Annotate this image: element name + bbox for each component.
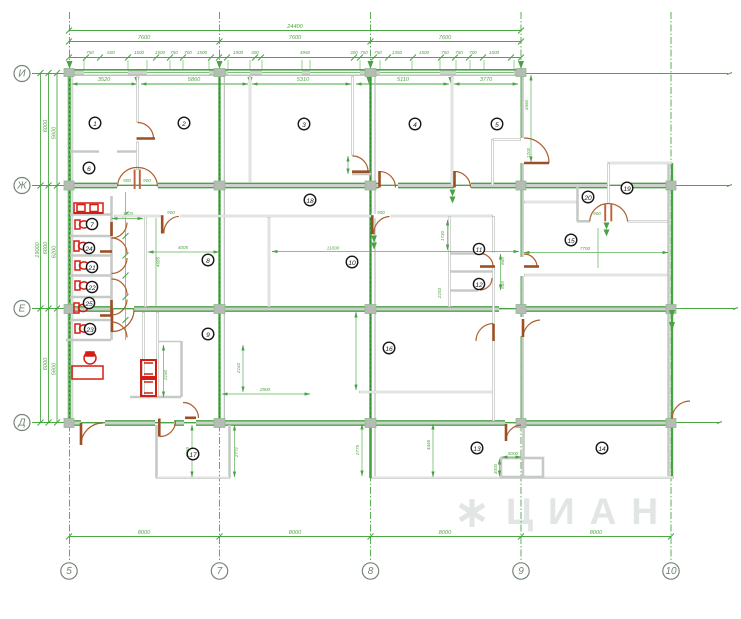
wall room8 left xyxy=(144,216,147,307)
double door rooms 19/20 xyxy=(590,203,628,236)
room5 alcove walls xyxy=(493,139,522,186)
svg-text:Е: Е xyxy=(19,304,26,315)
svg-text:17: 17 xyxy=(189,452,197,459)
svg-text:5110: 5110 xyxy=(397,77,410,83)
room circle 5 xyxy=(491,118,503,130)
top dimension line small row xyxy=(66,50,524,61)
svg-text:7: 7 xyxy=(217,566,223,577)
svg-text:3000: 3000 xyxy=(493,463,498,474)
svg-text:10: 10 xyxy=(665,566,677,577)
red toilet room22 xyxy=(75,281,89,290)
svg-text:21: 21 xyxy=(87,265,96,272)
svg-text:5000: 5000 xyxy=(508,451,519,456)
grid vertical line 5 xyxy=(69,12,71,562)
room circle 1 xyxy=(89,117,101,129)
svg-text:7600: 7600 xyxy=(289,35,302,41)
svg-text:2160: 2160 xyxy=(163,369,168,381)
dim 865 pair xyxy=(500,254,505,290)
svg-text:3770: 3770 xyxy=(480,77,493,83)
wall room4|5 xyxy=(451,76,454,186)
svg-text:8000: 8000 xyxy=(590,530,603,536)
svg-text:7600: 7600 xyxy=(138,35,151,41)
top dimension line 24400 xyxy=(66,24,524,34)
svg-text:900: 900 xyxy=(167,210,175,215)
wall x493 rooms 11/12 right xyxy=(491,216,496,421)
svg-text:700: 700 xyxy=(469,50,477,55)
axis circle Е xyxy=(14,301,30,317)
wall room2|3 xyxy=(249,76,252,183)
wall room6 top xyxy=(70,150,137,153)
svg-text:1500: 1500 xyxy=(419,50,430,55)
room circle 20 xyxy=(582,191,594,203)
svg-text:750: 750 xyxy=(374,50,382,55)
svg-text:1500: 1500 xyxy=(155,50,166,55)
red toilet room7 xyxy=(75,220,89,229)
door room17 top xyxy=(159,419,175,437)
svg-text:9: 9 xyxy=(206,332,210,339)
svg-text:ЦИАН: ЦИАН xyxy=(506,491,673,532)
axis circle 10 xyxy=(663,563,679,579)
svg-text:5: 5 xyxy=(495,122,499,129)
red elevator boxes xyxy=(141,360,156,396)
svg-text:1900: 1900 xyxy=(233,50,244,55)
room circle 18 xyxy=(304,194,316,206)
room circle 3 xyxy=(298,118,310,130)
svg-text:4685: 4685 xyxy=(156,256,161,267)
svg-text:750: 750 xyxy=(455,50,463,55)
svg-text:3660: 3660 xyxy=(524,99,529,110)
axis circle 9 xyxy=(513,563,529,579)
svg-text:Ж: Ж xyxy=(16,181,27,192)
elevator shaft walls xyxy=(130,312,182,397)
column blocks xyxy=(64,69,676,428)
room circle 8 xyxy=(202,254,214,266)
wall x269 room8 right xyxy=(268,217,271,307)
svg-text:1500: 1500 xyxy=(134,50,145,55)
red sink round lower xyxy=(84,352,96,364)
svg-text:600: 600 xyxy=(107,50,115,55)
toilet block dividers xyxy=(70,215,111,321)
door room8 top xyxy=(162,210,179,234)
door grid9 wall y317 xyxy=(523,319,540,337)
room 16 bottom wall xyxy=(359,391,493,394)
wall grid 7 interior xyxy=(218,74,220,423)
room circle 17 xyxy=(187,448,199,460)
room circle 4 xyxy=(409,118,421,130)
svg-text:5600: 5600 xyxy=(52,126,58,139)
room 17 walls xyxy=(156,425,230,478)
svg-text:Д: Д xyxy=(17,418,25,429)
svg-text:8000: 8000 xyxy=(289,530,302,536)
svg-text:5310: 5310 xyxy=(297,77,310,83)
svg-text:700: 700 xyxy=(184,50,192,55)
axis circle И xyxy=(14,66,30,82)
wall y272 corridor xyxy=(524,274,668,277)
axis line Ж xyxy=(32,185,730,187)
svg-text:2771: 2771 xyxy=(234,446,239,458)
room circle 9 xyxy=(202,328,214,340)
bottom strip walls (rooms 13,14) xyxy=(371,423,675,478)
svg-text:8: 8 xyxy=(368,566,374,577)
svg-text:4: 4 xyxy=(413,122,417,129)
outer wall И top xyxy=(66,70,525,76)
closet box rooms13/14 xyxy=(501,458,543,477)
svg-text:11000: 11000 xyxy=(327,246,340,251)
toilet block bottom wall xyxy=(66,339,111,342)
room circle 7 xyxy=(86,218,97,229)
door room10 top xyxy=(372,210,389,234)
svg-text:2775: 2775 xyxy=(355,444,360,456)
top-right step wall xyxy=(608,163,673,204)
red toilet room24 xyxy=(74,241,88,251)
grid vertical line 8 xyxy=(370,12,372,562)
wall room3|4 xyxy=(352,76,371,174)
room circle 22 xyxy=(86,281,97,292)
svg-text:750: 750 xyxy=(441,50,449,55)
svg-text:865: 865 xyxy=(500,281,505,289)
svg-text:5: 5 xyxy=(66,566,72,577)
svg-text:1: 1 xyxy=(93,121,97,128)
top dimension line 7600 row xyxy=(66,35,524,45)
room circle 19 xyxy=(621,182,633,194)
room circle 14 xyxy=(596,442,608,454)
svg-text:6000: 6000 xyxy=(43,357,49,370)
svg-text:11: 11 xyxy=(476,247,483,254)
svg-text:3520: 3520 xyxy=(98,77,111,83)
outer wall left (grid 5) xyxy=(68,70,72,424)
exit arrows doors xyxy=(371,190,456,250)
svg-text:1500: 1500 xyxy=(197,50,208,55)
svg-text:900: 900 xyxy=(123,178,131,183)
door on Е wall x112 xyxy=(112,309,134,332)
svg-text:20: 20 xyxy=(583,195,592,202)
room circle 2 xyxy=(178,117,190,129)
svg-text:5600: 5600 xyxy=(52,362,58,375)
svg-text:2163: 2163 xyxy=(236,362,241,374)
svg-text:3: 3 xyxy=(302,122,306,129)
svg-text:6600: 6600 xyxy=(43,241,49,254)
svg-text:900: 900 xyxy=(143,178,151,183)
door stair hall xyxy=(183,403,199,419)
wall grid 9 xyxy=(521,74,525,423)
top interior dims row xyxy=(67,61,525,84)
svg-text:1500: 1500 xyxy=(489,50,500,55)
svg-text:19: 19 xyxy=(623,186,631,193)
axis line И xyxy=(32,73,728,75)
svg-text:4445: 4445 xyxy=(426,439,431,450)
svg-text:2900: 2900 xyxy=(259,387,271,392)
svg-text:7700: 7700 xyxy=(580,246,591,251)
door room1|2 xyxy=(137,123,156,139)
door grid10 above Д xyxy=(672,401,690,419)
bottom dimension line 8000s xyxy=(66,530,674,540)
svg-text:22: 22 xyxy=(87,285,96,292)
svg-text:И: И xyxy=(18,69,26,80)
door room3 right xyxy=(352,156,370,172)
room circle 21 xyxy=(86,261,97,272)
svg-text:4950: 4950 xyxy=(300,50,311,55)
svg-text:4005: 4005 xyxy=(178,245,189,250)
svg-text:7: 7 xyxy=(90,222,94,229)
axis circle 7 xyxy=(211,563,227,579)
svg-text:1730: 1730 xyxy=(440,230,445,241)
toilet block right wall xyxy=(110,196,113,340)
axis circle Ж xyxy=(14,178,30,194)
svg-text:6200: 6200 xyxy=(52,245,58,258)
svg-text:865: 865 xyxy=(500,257,505,265)
toilet block dim line xyxy=(112,192,161,340)
right section wall y202 xyxy=(524,201,577,204)
room circle 11 xyxy=(473,243,484,254)
red toilet room21 xyxy=(75,261,89,270)
svg-text:750: 750 xyxy=(86,50,94,55)
wall Ж band xyxy=(66,182,668,188)
svg-text:8000: 8000 xyxy=(439,530,452,536)
axis circle Д xyxy=(14,415,30,431)
door grid9 wall y254 xyxy=(524,254,539,267)
svg-text:750: 750 xyxy=(170,50,178,55)
door Д wall x81 xyxy=(81,423,103,445)
door on Ж wall x454-470 xyxy=(455,171,471,188)
svg-text:24: 24 xyxy=(84,246,93,253)
grid vertical line 7 xyxy=(219,12,221,562)
red toilet room23 xyxy=(75,324,89,333)
svg-text:13: 13 xyxy=(473,446,481,453)
watermark xyxy=(460,491,673,532)
double door on Ж below room6 xyxy=(118,167,158,189)
room circle 13 xyxy=(471,442,483,454)
corridor wall y216 xyxy=(114,214,493,218)
svg-text:1350: 1350 xyxy=(392,50,403,55)
svg-text:2153: 2153 xyxy=(437,287,442,299)
svg-text:14: 14 xyxy=(598,446,606,453)
room 20 box xyxy=(577,187,668,222)
room circle 12 xyxy=(473,278,484,289)
wall Д band xyxy=(66,420,676,426)
svg-text:7600: 7600 xyxy=(439,35,452,41)
svg-text:900: 900 xyxy=(377,210,385,215)
svg-text:900: 900 xyxy=(593,211,601,216)
svg-text:10: 10 xyxy=(348,260,356,267)
door on Ж wall x379-397 xyxy=(380,171,396,188)
red counter table xyxy=(72,366,103,379)
room circle 15 xyxy=(565,234,577,246)
window division extension ticks xyxy=(84,60,514,70)
svg-text:300: 300 xyxy=(251,50,259,55)
dim door room3 xyxy=(347,156,349,174)
svg-text:9: 9 xyxy=(518,566,524,577)
grid vertical line 9 xyxy=(520,12,522,562)
svg-text:750: 750 xyxy=(360,50,368,55)
svg-text:300: 300 xyxy=(350,50,358,55)
svg-text:8000: 8000 xyxy=(138,530,151,536)
room circle 23 xyxy=(84,323,95,334)
svg-text:5860: 5860 xyxy=(188,77,201,83)
room circle 6 xyxy=(83,162,95,174)
svg-text:18: 18 xyxy=(306,198,314,205)
room circle 16 xyxy=(383,342,395,354)
wall grid 10 right xyxy=(669,163,673,478)
svg-text:25: 25 xyxy=(84,301,93,308)
axis line Е xyxy=(32,308,736,310)
svg-text:19000: 19000 xyxy=(35,241,41,257)
wall grid 8 interior xyxy=(369,74,371,478)
svg-text:1200: 1200 xyxy=(526,147,531,158)
svg-text:15: 15 xyxy=(567,238,575,245)
wall room1|2 xyxy=(136,76,139,170)
room circle 25 xyxy=(83,297,94,308)
left dimension lines xyxy=(35,70,60,426)
svg-text:8: 8 xyxy=(206,258,210,265)
svg-text:12: 12 xyxy=(475,282,483,289)
door room12 xyxy=(480,278,492,290)
wall x449 rooms 11/12 left xyxy=(448,216,451,307)
axis circle 5 xyxy=(61,563,77,579)
door grid9 wall И-Ж xyxy=(524,138,549,163)
red toilet room25 xyxy=(74,303,88,313)
door Д wall near grid9 xyxy=(506,424,521,441)
svg-text:23: 23 xyxy=(85,327,94,334)
room circle 24 xyxy=(83,242,94,253)
door corridor x493 y324 xyxy=(476,324,494,342)
svg-text:24400: 24400 xyxy=(286,24,303,30)
room circle 10 xyxy=(346,256,358,268)
wall Е band xyxy=(66,306,674,312)
door room11 xyxy=(480,254,495,267)
red sink counter top xyxy=(74,203,103,213)
toilet stall doors xyxy=(100,222,127,338)
svg-text:6: 6 xyxy=(87,166,91,173)
rooms 11/12 divider walls xyxy=(450,254,493,291)
interior dim lines xyxy=(123,73,738,478)
axis line Д xyxy=(32,422,720,424)
svg-text:2: 2 xyxy=(181,121,186,128)
axis circle 8 xyxy=(362,563,378,579)
grid vertical line 10 xyxy=(670,12,672,562)
svg-text:6000: 6000 xyxy=(43,119,49,132)
svg-text:16: 16 xyxy=(385,346,393,353)
